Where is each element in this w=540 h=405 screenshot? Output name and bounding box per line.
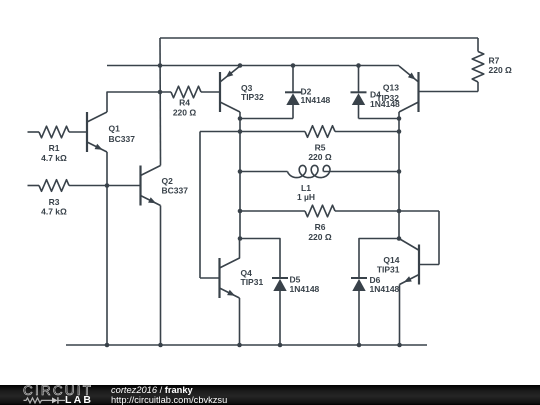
svg-text:220 Ω: 220 Ω [173,108,197,118]
wire main right bus x=399 [398,119,400,239]
svg-text:R7: R7 [489,56,500,66]
svg-text:Q14: Q14 [383,255,399,265]
svg-text:R5: R5 [315,143,326,153]
wire bottom rail y=345 [66,344,427,346]
inductor L1 [240,171,288,173]
resistor R7 [477,38,479,52]
diode D6 [351,277,367,279]
svg-text:4.7 kΩ: 4.7 kΩ [41,153,67,163]
wire main left bus x=240 [239,119,241,239]
wire Q14 emitter drop [399,285,401,346]
wire mid rail y=65.5 [107,65,399,67]
resistor R3 [28,185,40,187]
transistor Q3 [219,72,221,112]
svg-text:TIP31: TIP31 [377,265,400,275]
wire Q2 collector riser x=160 [159,38,162,166]
svg-text:TIP32: TIP32 [241,92,264,102]
wire Q2 emitter drop x=160 [160,206,162,346]
diode D5 [272,277,288,279]
svg-text:1 µH: 1 µH [297,192,315,202]
svg-text:4.7 kΩ: 4.7 kΩ [41,207,67,217]
diode D2 [292,66,294,93]
svg-text:220 Ω: 220 Ω [489,65,513,75]
svg-text:1N4148: 1N4148 [290,284,320,294]
svg-text:R1: R1 [49,143,60,153]
svg-text:1N4148: 1N4148 [301,95,331,105]
wire D4 bottom to Q13 collector node y=118.5 [359,118,400,120]
CircuitLab logo text [23,385,93,397]
svg-text:220 Ω: 220 Ω [308,152,332,162]
wire Q14 base loop [438,211,440,265]
svg-text:220 Ω: 220 Ω [308,232,332,242]
resistor R6 [240,210,305,212]
svg-text:TIP31: TIP31 [241,277,264,287]
CircuitLab logo doodle [22,385,92,405]
svg-text:Q2: Q2 [162,176,174,186]
wire Q13 collector to node [398,112,400,119]
svg-text:R6: R6 [315,222,326,232]
svg-text:R3: R3 [49,197,60,207]
svg-text:BC337: BC337 [162,186,189,196]
junction dots [158,63,163,68]
svg-text:Q13: Q13 [383,83,399,93]
resistor R1 [28,131,40,133]
transistor Q14 [418,245,420,285]
svg-text:D5: D5 [290,275,301,285]
wire Q3 collector to node [239,112,241,119]
wire node 240,238.5 to D5 top [240,239,280,278]
svg-text:TIP32: TIP32 [376,93,399,103]
wire Q1 emitter drop x=107 [106,152,108,345]
svg-text:1N4148: 1N4148 [370,284,400,294]
resistor R4 [171,86,201,98]
diode D4 [358,66,360,93]
wire top rail y=38 [160,37,478,39]
wire Q13 emitter stub [398,65,400,68]
wire Q13 base to R7 [419,91,479,93]
wire Q1 collector riser [107,92,171,112]
wire D2 bottom to Q3 collector node y=118.5 [240,118,293,120]
wire D6 top to node 399,238.5 [359,239,399,278]
wire Q4 emitter drop [239,298,241,345]
resistor R5 [200,131,305,133]
transistor Q13 [417,72,419,112]
transistor Q4 [218,258,220,298]
svg-text:R4: R4 [179,98,190,108]
transistor Q1 [86,112,88,152]
wire left branch riser x=200 [199,132,201,279]
svg-text:BC337: BC337 [109,134,136,144]
svg-text:Q1: Q1 [109,124,121,134]
transistor Q2 [139,166,141,206]
